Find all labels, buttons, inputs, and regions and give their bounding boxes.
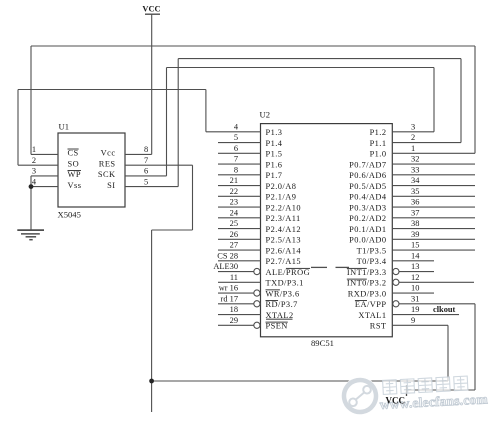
- U2 pin 30 stub (left row 14): [218, 271, 254, 273]
- U1 pin 1 stub: [31, 153, 58, 155]
- svg-text:26: 26: [230, 230, 238, 239]
- svg-text:XTAL2: XTAL2: [266, 311, 294, 320]
- svg-text:RXD/P3.0: RXD/P3.0: [348, 289, 387, 298]
- svg-text:P0.7/AD7: P0.7/AD7: [349, 160, 386, 169]
- svg-text:P0.2/AD2: P0.2/AD2: [349, 214, 386, 223]
- pin bubble row 15: [393, 279, 399, 285]
- wire VCC stem to U1 pin 8: [151, 14, 153, 154]
- svg-text:TXD/P3.1: TXD/P3.1: [266, 279, 304, 288]
- svg-text:5: 5: [234, 133, 238, 142]
- wire SCK net: U1 pin6 up over to U2 P1.2: [167, 68, 435, 176]
- svg-text:VCC: VCC: [142, 5, 160, 14]
- svg-text:22: 22: [230, 187, 238, 196]
- svg-text:SO: SO: [68, 159, 80, 168]
- svg-text:P2.7/A15: P2.7/A15: [266, 257, 301, 266]
- svg-text:wr 16: wr 16: [219, 284, 238, 293]
- pin bubble row 19: [254, 322, 260, 328]
- U1 pin 2 stub: [18, 164, 58, 166]
- svg-text:33: 33: [411, 165, 419, 174]
- svg-text:10: 10: [411, 284, 419, 293]
- svg-text:clkout: clkout: [433, 305, 456, 314]
- svg-text:89C51: 89C51: [311, 338, 334, 348]
- pin bubble row 17: [254, 301, 260, 307]
- svg-text:ALE30: ALE30: [213, 262, 238, 271]
- svg-text:P1.5: P1.5: [266, 150, 283, 159]
- svg-text:15: 15: [411, 241, 419, 250]
- U2 pin 39 stub (right row 11): [392, 238, 475, 240]
- svg-text:Vcc: Vcc: [101, 149, 116, 158]
- U2 pin 10 stub (right row 16): [392, 292, 434, 294]
- svg-text:P1.0: P1.0: [370, 150, 387, 159]
- U1 pin 3 stub: [31, 175, 58, 177]
- svg-text:1: 1: [32, 145, 36, 154]
- wire CS net: U1 pin1 up over to U2 P1.0: [31, 46, 475, 154]
- U2 pin 4 stub (left row 1): [206, 131, 261, 133]
- svg-text:8: 8: [144, 145, 148, 154]
- svg-text:27: 27: [230, 241, 238, 250]
- svg-text:38: 38: [411, 219, 419, 228]
- U2 pin 25 stub (left row 10): [218, 228, 261, 230]
- node junction RST net: [149, 379, 154, 384]
- svg-text:5: 5: [144, 177, 148, 186]
- svg-text:P1.3: P1.3: [266, 128, 283, 137]
- svg-text:39: 39: [411, 230, 419, 239]
- pin bubble row 14: [393, 268, 399, 274]
- svg-text:P0.6/AD6: P0.6/AD6: [349, 171, 386, 180]
- power VCC (top): [142, 5, 160, 15]
- U2 pin 29 stub (left row 19): [218, 324, 254, 326]
- svg-text:P0.5/AD5: P0.5/AD5: [349, 182, 386, 191]
- U2 pin 26 stub (left row 11): [218, 238, 261, 240]
- svg-text:SI: SI: [107, 181, 115, 190]
- svg-text:PSEN: PSEN: [266, 322, 288, 331]
- svg-text:P1.6: P1.6: [266, 160, 283, 169]
- svg-text:RES: RES: [99, 159, 116, 168]
- svg-text:12: 12: [411, 273, 419, 282]
- U2 pin 11 stub (left row 15): [218, 281, 261, 283]
- U2 pin 21 stub (left row 6): [218, 185, 261, 187]
- svg-text:ALE/PROG: ALE/PROG: [266, 268, 311, 277]
- U2 pin 5 stub (left row 2): [218, 142, 261, 144]
- svg-text:U2: U2: [260, 110, 271, 120]
- svg-text:RST: RST: [370, 322, 387, 331]
- U2 pin 7 stub (left row 4): [218, 163, 261, 165]
- wire EA/VPP to VCC tick: [407, 304, 476, 396]
- U2 pin 1 stub (right row 3): [392, 152, 475, 154]
- svg-text:8: 8: [234, 165, 238, 174]
- ground symbol: [17, 230, 44, 240]
- svg-text:2: 2: [32, 156, 36, 165]
- U2 pin 33 stub (right row 5): [392, 174, 475, 176]
- svg-text:13: 13: [411, 262, 419, 271]
- svg-text:24: 24: [230, 208, 239, 217]
- svg-text:P2.2/A10: P2.2/A10: [266, 203, 301, 212]
- U2 pin 27 stub (left row 12): [218, 249, 261, 251]
- svg-text:P2.3/A11: P2.3/A11: [266, 214, 301, 223]
- pin bubble row 16: [254, 290, 260, 296]
- U2 pin 15 stub (right row 12): [392, 249, 475, 251]
- svg-text:P1.2: P1.2: [370, 128, 387, 137]
- svg-text:7: 7: [144, 156, 148, 165]
- wire RES/RST net: U1 pin7 down around to U2 pin9: [152, 165, 448, 412]
- mcu U2 89C51 box: [261, 124, 393, 337]
- svg-text:P2.6/A14: P2.6/A14: [266, 246, 302, 255]
- svg-text:21: 21: [230, 176, 238, 185]
- U2 pin 9 stub (right row 19): [392, 324, 448, 326]
- wire SO net: U1 pin2 up over to U2 P1.3: [18, 90, 206, 166]
- svg-text:P2.4/A12: P2.4/A12: [266, 225, 301, 234]
- svg-text:32: 32: [411, 155, 419, 164]
- wire SI net: U1 pin5 up over to U2 P1.1: [178, 59, 461, 187]
- svg-text:Vss: Vss: [68, 181, 82, 190]
- svg-text:29: 29: [230, 316, 238, 325]
- U2 pin 36 stub (right row 8): [392, 206, 475, 208]
- op chip U1 X5045 box: [58, 133, 125, 207]
- svg-text:11: 11: [230, 273, 238, 282]
- svg-text:CS 28: CS 28: [217, 251, 238, 260]
- U1 pin 8 stub: [125, 153, 152, 155]
- svg-text:2: 2: [411, 133, 415, 142]
- svg-text:P0.1/AD1: P0.1/AD1: [349, 225, 386, 234]
- svg-text:U1: U1: [59, 122, 70, 132]
- svg-text:P0.3/AD3: P0.3/AD3: [349, 203, 386, 212]
- U2 pin 14 stub (right row 13): [392, 260, 434, 262]
- svg-text:T1/P3.5: T1/P3.5: [357, 246, 387, 255]
- svg-text:P2.1/A9: P2.1/A9: [266, 193, 297, 202]
- svg-text:VCC: VCC: [386, 396, 406, 406]
- U2 pin 18 stub (left row 18): [218, 314, 261, 316]
- svg-text:6: 6: [144, 167, 148, 176]
- svg-text:37: 37: [411, 208, 419, 217]
- svg-text:X5045: X5045: [58, 210, 81, 220]
- svg-text:WR/P3.6: WR/P3.6: [266, 289, 300, 298]
- svg-text:INT1/P3.3: INT1/P3.3: [347, 268, 387, 277]
- svg-text:INT0/P3.2: INT0/P3.2: [347, 279, 387, 288]
- svg-text:34: 34: [411, 176, 420, 185]
- U2 pin 37 stub (right row 9): [392, 217, 475, 219]
- svg-text:36: 36: [411, 198, 419, 207]
- svg-text:P1.1: P1.1: [370, 139, 387, 148]
- svg-text:RD/P3.7: RD/P3.7: [266, 300, 298, 309]
- node junction at U1 pin 4: [29, 184, 34, 189]
- svg-text:25: 25: [230, 219, 238, 228]
- svg-text:14: 14: [411, 251, 420, 260]
- U1 pin 4 stub: [31, 186, 58, 188]
- svg-text:3: 3: [411, 122, 415, 131]
- U2 pin 17 stub (left row 17): [218, 303, 254, 305]
- U2 pin 2 stub (right row 2): [392, 142, 461, 144]
- svg-text:P1.7: P1.7: [266, 171, 283, 180]
- pin bubble row 17: [393, 301, 399, 307]
- svg-text:18: 18: [230, 305, 238, 314]
- svg-text:CS: CS: [68, 149, 79, 158]
- svg-text:9: 9: [411, 316, 415, 325]
- svg-text:P0.4/AD4: P0.4/AD4: [349, 193, 387, 202]
- U2 pin 16 stub (left row 16): [218, 292, 254, 294]
- U2 pin 23 stub (left row 8): [218, 206, 261, 208]
- svg-text:19: 19: [411, 305, 419, 314]
- dash artifact 2 right of ALE/PROG overline: [336, 266, 350, 268]
- U2 pin 34 stub (right row 6): [392, 185, 475, 187]
- XTAL2 label underline: [266, 318, 293, 320]
- U1 pin 5 stub: [125, 186, 178, 188]
- U2 pin 6 stub (left row 3): [218, 152, 261, 154]
- svg-text:WP: WP: [68, 170, 81, 179]
- pin bubble row 14: [254, 268, 260, 274]
- svg-text:P2.5/A13: P2.5/A13: [266, 236, 301, 245]
- U2 pin 24 stub (left row 9): [218, 217, 261, 219]
- U2 pin 35 stub (right row 7): [392, 195, 475, 197]
- svg-text:P2.0/A8: P2.0/A8: [266, 182, 297, 191]
- U1 pin 7 stub: [125, 164, 193, 166]
- svg-text:7: 7: [234, 155, 238, 164]
- U2 pin 22 stub (left row 7): [218, 195, 261, 197]
- svg-text:T0/P3.4: T0/P3.4: [357, 257, 387, 266]
- U1 pin 6 stub: [125, 175, 167, 177]
- wire ground vertical from U1 pin 3 down: [30, 176, 32, 230]
- U2 pin 32 stub (right row 4): [392, 163, 475, 165]
- U2 pin 28 stub (left row 13): [218, 260, 261, 262]
- watermark text dianzifashaoyou (faux CJK glyphs): [383, 376, 468, 394]
- svg-text:1: 1: [411, 144, 415, 153]
- svg-text:35: 35: [411, 187, 419, 196]
- dash artifact right of ALE/PROG overline: [311, 266, 327, 268]
- U2 pin 19 stub (right row 18): [392, 314, 459, 316]
- svg-text:P0.0/AD0: P0.0/AD0: [349, 236, 386, 245]
- svg-text:EA/VPP: EA/VPP: [355, 300, 387, 309]
- U2 pin 38 stub (right row 10): [392, 228, 475, 230]
- svg-text:23: 23: [230, 198, 238, 207]
- U2 pin 8 stub (left row 5): [218, 174, 261, 176]
- svg-text:XTAL1: XTAL1: [358, 311, 386, 320]
- svg-text:P1.4: P1.4: [266, 139, 283, 148]
- svg-text:3: 3: [32, 167, 36, 176]
- watermark elecfans logo: [338, 374, 382, 418]
- svg-text:rd 17: rd 17: [221, 294, 238, 303]
- svg-text:SCK: SCK: [98, 170, 116, 179]
- svg-text:6: 6: [234, 144, 238, 153]
- U2 pin 3 stub (right row 1): [392, 131, 434, 133]
- svg-text:31: 31: [411, 294, 419, 303]
